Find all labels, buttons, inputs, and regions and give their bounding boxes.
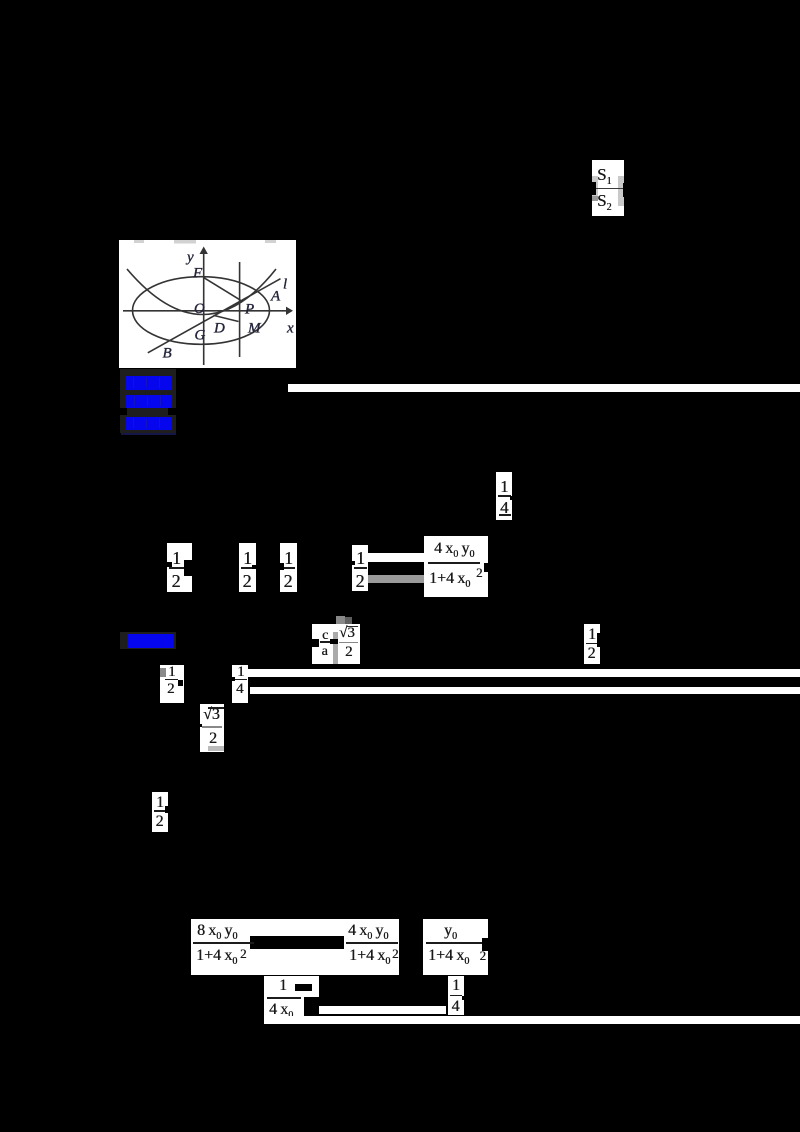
x-axis [123, 310, 287, 312]
blue label 2 [120, 632, 176, 649]
svg-text:O: O [194, 301, 205, 317]
1/2 box e (right, y~624) [584, 624, 600, 664]
svg-text:M: M [247, 321, 262, 337]
sqrt3/2 box (y~704) [200, 704, 224, 752]
long white bar A [288, 384, 800, 392]
strip A [319, 1006, 447, 1014]
svg-text:y: y [185, 250, 194, 266]
long line 2 [250, 687, 800, 694]
big fraction 4x0y0/1+4x0^2 [424, 536, 488, 597]
top smudges [134, 240, 276, 244]
segment D-M [214, 315, 239, 321]
svg-text:l: l [283, 277, 287, 293]
1/2 box b [239, 543, 256, 592]
svg-text:P: P [244, 302, 254, 318]
parabola [127, 269, 276, 315]
ellipse [133, 277, 270, 345]
segment F-P [204, 278, 241, 301]
figure: ellipse/parabola diagram [119, 240, 296, 368]
svg-text:x: x [286, 321, 294, 337]
1/2 box d [352, 545, 368, 591]
S1/S2 formula box top right [592, 160, 624, 216]
1/4 box (line ~472) [496, 472, 512, 520]
1/4 box i [448, 976, 464, 1016]
svg-text:B: B [163, 346, 172, 362]
long line 1 [248, 669, 800, 677]
1/2 box c [280, 543, 297, 592]
gray joining bar [368, 575, 424, 583]
1/2 box a [167, 543, 192, 592]
line l [148, 279, 281, 353]
bottom row 2: 1/(4x0), tab, strips, 1/4 [264, 976, 304, 1025]
bottom row 1: 8x0y0/(1+4x0^2) strip with notch + 4x0y0/(1+4x0^2) [191, 919, 399, 975]
strip B [264, 1016, 800, 1024]
row y~668 : 1/2, 1/4 and two long lines [160, 665, 184, 704]
1/2 box h (y~792) [152, 792, 168, 832]
svg-text:F: F [192, 266, 203, 282]
c/a = sqrt3/2 box [312, 624, 360, 665]
white joining bar [368, 553, 424, 562]
svg-text:A: A [270, 289, 281, 305]
blue block 1 : three CJK-like label lines [120, 369, 176, 433]
vertical line x=const [239, 262, 241, 357]
box3 y0/(1+4x0^2) [423, 919, 489, 975]
svg-text:G: G [195, 328, 206, 344]
y-axis [203, 253, 205, 365]
svg-text:D: D [213, 321, 225, 337]
